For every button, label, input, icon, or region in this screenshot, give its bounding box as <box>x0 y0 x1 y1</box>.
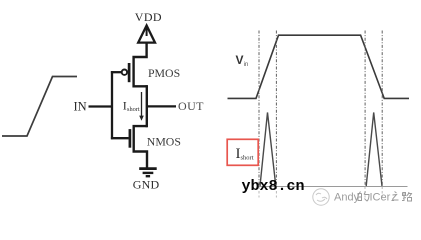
wire PMOS gate lead <box>111 71 121 73</box>
wire output node vertical <box>146 85 148 127</box>
transistor Q1 PMOS gate plate <box>128 63 131 82</box>
wire IN to gate bus <box>89 105 114 107</box>
svg-text:GND: GND <box>133 178 160 192</box>
glyph 之 <box>392 192 399 201</box>
svg-text:in: in <box>244 62 249 68</box>
threshold dashed line 4 <box>381 31 383 187</box>
glyph 路 <box>402 192 412 201</box>
svg-text:PMOS: PMOS <box>148 66 180 80</box>
svg-text:ICer: ICer <box>370 192 391 204</box>
transistor Q1 PMOS bubble <box>122 70 127 75</box>
wire NMOS gate lead <box>111 137 129 139</box>
glyph 的 <box>358 192 369 202</box>
svg-text:V: V <box>236 53 244 67</box>
wire gate bus vertical <box>111 71 113 139</box>
threshold dashed line 1 <box>258 31 260 187</box>
watermark logo circle <box>313 189 329 205</box>
Ishort pulse 2 <box>366 113 382 187</box>
wire OUT <box>147 105 176 107</box>
transistor Q2 NMOS gate plate <box>129 129 132 148</box>
svg-text:VDD: VDD <box>135 10 162 24</box>
Ishort plot baseline <box>259 186 408 188</box>
ground symbol <box>139 167 157 170</box>
svg-text:IN: IN <box>74 100 87 114</box>
input ramp waveform <box>2 77 77 137</box>
threshold dashed line 3 <box>364 31 366 187</box>
svg-text:short: short <box>241 154 254 161</box>
waveform Vin trapezoid <box>228 35 410 98</box>
threshold dashed line 2 <box>275 31 277 187</box>
svg-text:ybx8.cn: ybx8.cn <box>242 178 305 195</box>
power VDD symbol triangle <box>138 26 155 43</box>
svg-text:Andy: Andy <box>334 192 360 204</box>
Ishort pulse 1 <box>260 113 276 187</box>
svg-text:OUT: OUT <box>178 99 204 113</box>
transistor Q2 NMOS drain-channel-source <box>134 126 147 168</box>
Ishort legend red box <box>227 139 258 165</box>
transistor Q1 PMOS channel with VDD jog <box>134 28 147 87</box>
svg-text:NMOS: NMOS <box>147 134 181 148</box>
svg-text:short: short <box>127 106 140 113</box>
watermark Andy ICer text <box>334 192 412 204</box>
current arrow Ishort <box>141 92 143 117</box>
